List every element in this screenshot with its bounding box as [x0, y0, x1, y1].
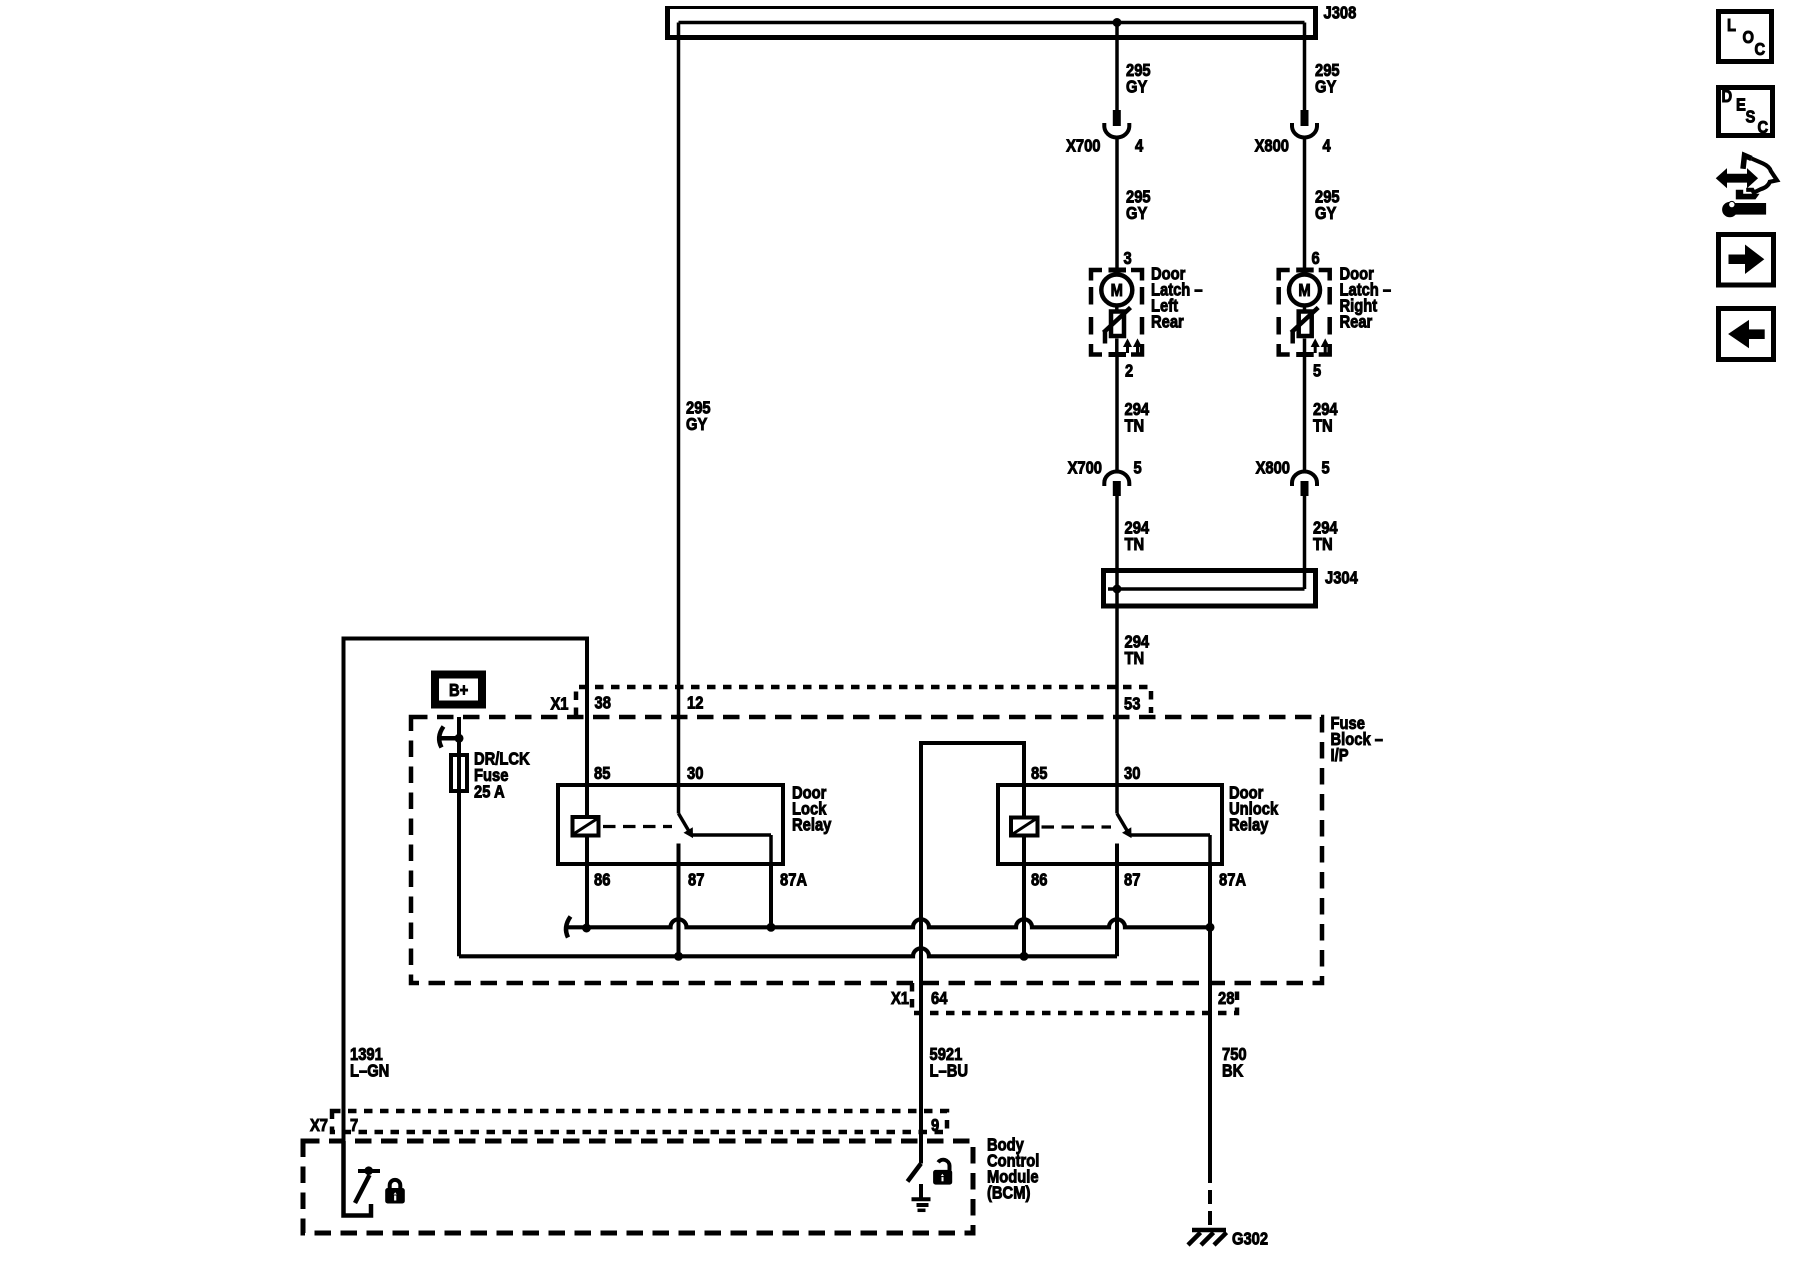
svg-text:L: L [1727, 16, 1736, 36]
wire (unlock relay 86 to feed bus) [1022, 864, 1026, 956]
svg-text:I/P: I/P [1331, 746, 1349, 766]
connector X700 pin 5 [1068, 458, 1142, 495]
svg-text:28: 28 [1218, 988, 1234, 1008]
svg-text:L–BU: L–BU [930, 1061, 969, 1081]
junction (lock 87A on ground bus) [767, 923, 775, 931]
wire 294 TN (X700-5 to J304) [1115, 496, 1119, 786]
svg-text:X7: X7 [310, 1116, 328, 1136]
wire (lock relay 87 to feed bus) [677, 864, 681, 956]
label Door Latch - Left Rear [1151, 264, 1203, 332]
svg-text:85: 85 [594, 763, 610, 783]
icon forward arrow [1719, 235, 1774, 286]
junction on J308 bus [1113, 19, 1121, 27]
svg-text:BK: BK [1222, 1061, 1243, 1081]
svg-text:53: 53 [1124, 694, 1140, 714]
latch switch (latch left) [1104, 306, 1131, 353]
wire (B+ to DR/LCK fuse) [457, 717, 461, 755]
svg-text:E: E [1736, 95, 1746, 115]
wire 294 TN (latch left pin 2 to X700 pin 5) [1115, 355, 1119, 472]
wire (unlock relay 87A to X1 pin 28) [1208, 864, 1212, 1013]
wire 295 GY (J308 to X800 pin 4) [1303, 23, 1307, 111]
svg-text:85: 85 [1031, 763, 1047, 783]
svg-text:5: 5 [1322, 458, 1330, 478]
svg-text:X800: X800 [1255, 136, 1289, 156]
svg-text:25 A: 25 A [474, 782, 505, 802]
svg-text:C: C [1758, 118, 1769, 138]
junction on J304 bus [1113, 585, 1121, 593]
motor M (latch right) [1289, 272, 1320, 306]
door lock relay (box) [558, 783, 832, 864]
svg-text:87: 87 [688, 870, 704, 890]
wire (lock relay 86 to ground bus) [585, 864, 589, 926]
wire 5921 L-BU (X1-64 to BCM pin 9) [919, 1013, 923, 1164]
icon harness routing [1717, 156, 1778, 217]
icon back arrow [1719, 309, 1774, 360]
wire 295 GY (J308 to fuse block pin 12 / lock relay 30) [677, 23, 681, 786]
motor M (latch left) [1101, 272, 1132, 306]
svg-text:5: 5 [1134, 458, 1142, 478]
wire 295 GY (X800-4 to door latch right pin 6) [1303, 138, 1307, 271]
svg-text:38: 38 [595, 693, 611, 713]
mechanical link (unlock relay) [1042, 825, 1112, 828]
connector X7 (strip) [310, 1111, 947, 1135]
svg-text:7: 7 [350, 1116, 358, 1136]
svg-text:X1: X1 [550, 694, 568, 714]
svg-text:87A: 87A [1219, 870, 1246, 890]
svg-text:87A: 87A [780, 870, 807, 890]
svg-text:30: 30 [687, 763, 703, 783]
connector X700 pin 4 [1066, 111, 1144, 156]
wire (fuse to contact bus) [457, 755, 461, 956]
svg-text:TN: TN [1313, 416, 1333, 436]
svg-text:B+: B+ [449, 680, 468, 700]
svg-text:X700: X700 [1066, 136, 1100, 156]
ground G302 [1188, 1229, 1268, 1249]
unlock command switch (BCM) [908, 1132, 922, 1182]
svg-text:X700: X700 [1068, 458, 1102, 478]
svg-text:Relay: Relay [792, 815, 832, 835]
svg-text:S: S [1746, 107, 1756, 127]
door latch right rear (dashed box) [1279, 270, 1330, 355]
terminal tick top (latch right) [1296, 268, 1314, 273]
connector X800 pin 4 [1255, 111, 1332, 156]
icon DESC (hyperlink box) [1719, 87, 1773, 138]
fuse DR/LCK 25 A [451, 749, 530, 802]
svg-text:3: 3 [1124, 249, 1132, 269]
svg-text:TN: TN [1125, 535, 1145, 555]
label Door Latch - Right Rear [1340, 264, 1392, 332]
svg-text:TN: TN [1313, 535, 1333, 555]
svg-text:M: M [1111, 280, 1123, 300]
label 294 TN (upper right) [1313, 400, 1338, 436]
icon LOC (hyperlink box) [1719, 12, 1772, 62]
wire 750 BK (X1-28 to ground G302) [1208, 1013, 1212, 1228]
svg-text:4: 4 [1323, 136, 1332, 156]
svg-text:GY: GY [1315, 203, 1336, 223]
bus bar tap (ground bus) [566, 917, 571, 938]
terminal tick bottom (latch left) [1109, 352, 1127, 357]
connector X1 (bottom strip) [891, 983, 1237, 1013]
lock command switch (BCM) [344, 1141, 381, 1216]
relay switch (lock relay) [679, 785, 772, 864]
wire (unlock relay 87 to feed bus) [1115, 864, 1119, 956]
label 1391 L-GN [350, 1045, 389, 1081]
wire (X1-64 to unlock relay coil 85) [921, 743, 1024, 1013]
wire 295 GY (J308 to X700 pin 4) [1115, 23, 1119, 111]
label 295 GY (mid middle) [1126, 187, 1151, 223]
wire (lock relay 87A to ground bus) [769, 864, 773, 927]
svg-text:C: C [1755, 40, 1766, 60]
label 294 TN (lower middle above J304) [1125, 518, 1150, 554]
label 750 BK [1222, 1045, 1247, 1081]
connector X1 (top strip) [550, 687, 1151, 716]
feed bus inside fuse block (with hop) [459, 948, 1117, 956]
svg-text:J308: J308 [1324, 3, 1357, 23]
door unlock relay (box) [998, 783, 1279, 864]
wire 294 TN (X800-5 to J304) [1303, 496, 1307, 590]
svg-text:86: 86 [594, 870, 610, 890]
svg-text:TN: TN [1125, 416, 1145, 436]
svg-text:9: 9 [931, 1116, 939, 1136]
label 295 GY (mid right) [1315, 187, 1340, 223]
mechanical link (lock relay) [603, 825, 672, 828]
relay switch (unlock relay) [1117, 785, 1210, 864]
label 294 TN (upper middle) [1125, 400, 1150, 436]
svg-text:Rear: Rear [1151, 312, 1184, 332]
svg-text:GY: GY [1126, 77, 1147, 97]
internal ground (BCM) [912, 1184, 931, 1210]
junction (lock 87 on feed bus) [675, 952, 683, 960]
relay coil (unlock relay) [1011, 785, 1038, 864]
actuation arrows (latch right) [1312, 340, 1329, 354]
junction (ground bus to 87A) [1206, 923, 1214, 931]
svg-text:Relay: Relay [1229, 815, 1269, 835]
svg-text:D: D [1722, 87, 1733, 107]
actuation arrows (latch left) [1124, 340, 1141, 354]
label 295 GY (left wire) [686, 398, 711, 434]
svg-text:GY: GY [1126, 203, 1147, 223]
junction (unlock 86 on feed bus) [1020, 952, 1028, 960]
terminal tick bottom (latch right) [1296, 352, 1314, 357]
latch switch (latch right) [1291, 306, 1318, 353]
svg-text:G302: G302 [1232, 1229, 1268, 1249]
svg-text:GY: GY [686, 415, 707, 435]
svg-text:(BCM): (BCM) [987, 1183, 1030, 1203]
wire 295 GY (X700-4 to door latch left pin 3) [1115, 138, 1119, 271]
svg-text:6: 6 [1312, 249, 1320, 269]
splice pack J304 [1104, 568, 1359, 606]
label 294 TN (lower right) [1313, 518, 1338, 554]
door latch left rear (dashed box) [1091, 270, 1142, 355]
wire 294 TN (latch right pin 5 to X800 pin 5) [1303, 355, 1307, 472]
svg-text:64: 64 [931, 988, 948, 1008]
svg-text:Rear: Rear [1340, 312, 1373, 332]
svg-text:L–GN: L–GN [350, 1061, 389, 1081]
svg-text:O: O [1743, 28, 1755, 48]
lock icon (closed padlock) [386, 1180, 405, 1203]
svg-text:2: 2 [1125, 361, 1133, 381]
svg-text:30: 30 [1124, 763, 1140, 783]
bus bar tap (B+ feed) [439, 727, 463, 748]
svg-text:J304: J304 [1325, 568, 1359, 588]
svg-text:5: 5 [1313, 361, 1321, 381]
svg-text:X800: X800 [1256, 458, 1290, 478]
power feed B+ [435, 675, 482, 705]
fuse block - I/P (dashed box) [411, 714, 1383, 983]
svg-text:TN: TN [1125, 649, 1145, 669]
svg-text:X1: X1 [891, 988, 909, 1008]
ground bus inside fuse block (with hops) [567, 919, 1211, 927]
body control module BCM (dashed box) [303, 1135, 1039, 1233]
label 295 GY (upper middle) [1126, 61, 1151, 97]
svg-text:4: 4 [1135, 136, 1144, 156]
label 294 TN (below J304) [1125, 632, 1150, 668]
splice pack J308 [665, 3, 1356, 39]
svg-text:M: M [1298, 280, 1310, 300]
svg-text:86: 86 [1031, 870, 1047, 890]
connector X800 pin 5 [1256, 458, 1330, 495]
terminal tick top (latch left) [1109, 268, 1127, 273]
unlock icon (open padlock) [934, 1160, 952, 1184]
svg-text:12: 12 [687, 693, 703, 713]
label 295 GY (upper right) [1315, 61, 1340, 97]
wire (top rail from BCM pin 7 to relay coil feed) [344, 639, 588, 1142]
svg-text:GY: GY [1315, 77, 1336, 97]
junction (86 on ground bus) [583, 924, 591, 932]
relay coil (lock relay) [573, 785, 599, 864]
label 5921 L-BU [930, 1045, 969, 1081]
svg-text:87: 87 [1124, 870, 1140, 890]
